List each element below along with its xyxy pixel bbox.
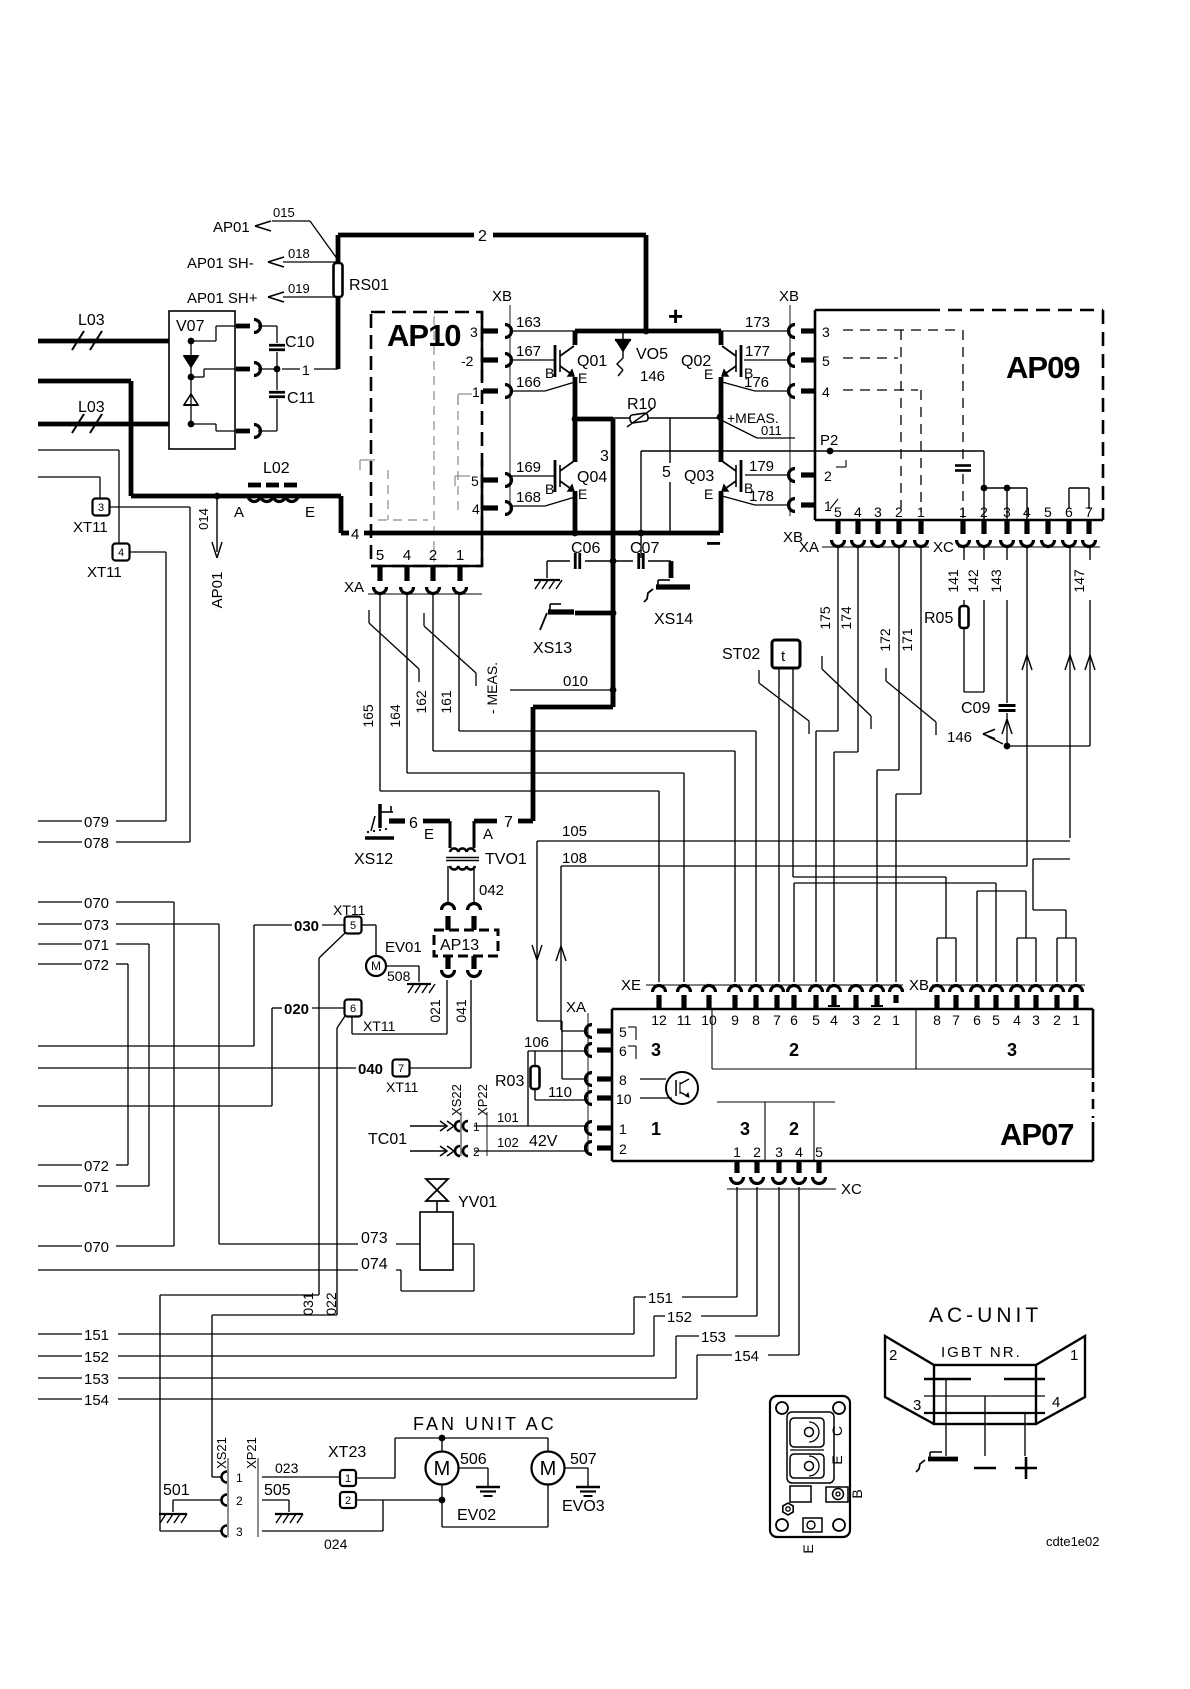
svg-text:174: 174 (838, 606, 854, 630)
svg-text:10: 10 (616, 1091, 632, 1107)
svg-text:R03: R03 (495, 1073, 524, 1090)
svg-text:-2: -2 (461, 353, 474, 369)
svg-text:1: 1 (345, 1473, 351, 1485)
svg-text:070: 070 (84, 1239, 109, 1256)
svg-text:7: 7 (398, 1063, 404, 1075)
svg-text:106: 106 (524, 1034, 549, 1051)
svg-text:020: 020 (284, 1001, 309, 1018)
svg-text:6: 6 (790, 1012, 798, 1028)
svg-text:146: 146 (947, 729, 972, 746)
svg-text:B: B (545, 365, 554, 381)
svg-text:3: 3 (1032, 1012, 1040, 1028)
svg-text:FAN UNIT AC: FAN UNIT AC (413, 1414, 557, 1434)
svg-text:L02: L02 (263, 460, 290, 477)
svg-text:3: 3 (913, 1397, 921, 1414)
svg-text:110: 110 (548, 1084, 572, 1101)
svg-text:161: 161 (438, 690, 454, 714)
svg-text:E: E (829, 1455, 845, 1464)
svg-text:2: 2 (895, 504, 903, 520)
svg-text:EV02: EV02 (457, 1507, 496, 1524)
svg-text:108: 108 (562, 850, 587, 867)
svg-text:XA: XA (799, 539, 819, 556)
svg-text:072: 072 (84, 1158, 109, 1175)
svg-text:4: 4 (1013, 1012, 1021, 1028)
svg-text:M: M (434, 1458, 451, 1480)
svg-text:4: 4 (403, 547, 411, 564)
svg-text:C: C (829, 1426, 845, 1436)
svg-text:010: 010 (563, 673, 588, 690)
svg-text:164: 164 (387, 704, 403, 728)
svg-text:163: 163 (516, 314, 541, 331)
svg-text:162: 162 (413, 690, 429, 714)
svg-text:507: 507 (570, 1451, 597, 1468)
svg-text:3: 3 (470, 324, 478, 340)
svg-text:168: 168 (516, 489, 541, 506)
svg-text:024: 024 (324, 1536, 348, 1552)
svg-text:IGBT NR.: IGBT NR. (941, 1344, 1022, 1361)
svg-text:2: 2 (889, 1347, 897, 1364)
svg-text:V07: V07 (176, 318, 205, 335)
svg-text:4: 4 (472, 501, 480, 517)
svg-text:041: 041 (453, 999, 469, 1023)
svg-text:169: 169 (516, 459, 541, 476)
svg-text:+: + (668, 301, 683, 331)
svg-text:- MEAS.: - MEAS. (484, 662, 500, 714)
svg-text:TVO1: TVO1 (485, 851, 527, 868)
svg-text:3: 3 (874, 504, 882, 520)
svg-text:XB: XB (909, 977, 929, 994)
svg-text:071: 071 (84, 1179, 109, 1196)
svg-text:3: 3 (852, 1012, 860, 1028)
svg-text:XC: XC (841, 1181, 862, 1198)
svg-text:E: E (578, 370, 587, 386)
svg-text:4: 4 (118, 547, 124, 559)
svg-text:3: 3 (98, 502, 104, 514)
svg-text:4: 4 (830, 1012, 838, 1028)
svg-text:7: 7 (504, 814, 513, 831)
svg-text:Q01: Q01 (577, 353, 607, 370)
svg-text:6: 6 (619, 1043, 627, 1059)
svg-text:6: 6 (1065, 504, 1073, 520)
svg-text:143: 143 (988, 569, 1004, 593)
svg-text:1: 1 (472, 384, 480, 400)
svg-text:105: 105 (562, 823, 587, 840)
svg-text:3: 3 (1007, 1040, 1017, 1060)
svg-text:2: 2 (980, 504, 988, 520)
svg-text:XP21: XP21 (244, 1437, 259, 1469)
svg-text:3: 3 (236, 1525, 243, 1539)
svg-text:5: 5 (619, 1024, 627, 1040)
svg-text:Q03: Q03 (684, 468, 714, 485)
svg-text:B: B (849, 1489, 865, 1498)
svg-text:4: 4 (854, 504, 862, 520)
svg-text:040: 040 (358, 1061, 383, 1078)
svg-text:M: M (371, 959, 381, 973)
svg-text:3: 3 (775, 1144, 783, 1160)
svg-text:R05: R05 (924, 610, 953, 627)
svg-text:179: 179 (749, 458, 774, 475)
svg-text:153: 153 (84, 1371, 109, 1388)
svg-text:015: 015 (273, 205, 295, 220)
svg-text:3: 3 (600, 448, 609, 465)
svg-text:B: B (545, 481, 554, 497)
svg-text:7: 7 (952, 1012, 960, 1028)
svg-text:EV01: EV01 (385, 939, 422, 956)
svg-text:A: A (234, 504, 244, 521)
svg-text:2: 2 (478, 228, 487, 245)
svg-text:142: 142 (965, 569, 981, 593)
svg-text:023: 023 (275, 1460, 299, 1476)
svg-text:AP10: AP10 (387, 318, 461, 353)
svg-text:Q04: Q04 (577, 469, 607, 486)
svg-text:9: 9 (731, 1012, 739, 1028)
svg-text:154: 154 (84, 1392, 109, 1409)
svg-text:AP13: AP13 (440, 937, 479, 954)
svg-text:1: 1 (917, 504, 925, 520)
svg-text:501: 501 (163, 1482, 190, 1499)
svg-text:172: 172 (877, 628, 893, 652)
svg-text:506: 506 (460, 1451, 487, 1468)
svg-text:AP07: AP07 (1000, 1117, 1074, 1152)
svg-text:1: 1 (824, 498, 832, 514)
svg-text:XE: XE (621, 977, 641, 994)
svg-text:2: 2 (345, 1495, 351, 1507)
svg-text:8: 8 (933, 1012, 941, 1028)
svg-text:5: 5 (992, 1012, 1000, 1028)
svg-text:R10: R10 (627, 396, 656, 413)
svg-text:4: 4 (1052, 1394, 1060, 1411)
svg-text:5: 5 (471, 473, 479, 489)
svg-text:167: 167 (516, 343, 541, 360)
svg-text:042: 042 (479, 882, 504, 899)
svg-text:3: 3 (822, 324, 830, 340)
svg-text:072: 072 (84, 957, 109, 974)
svg-text:2: 2 (473, 1145, 480, 1159)
svg-text:XS14: XS14 (654, 611, 693, 628)
svg-text:4: 4 (351, 526, 359, 543)
svg-text:171: 171 (899, 628, 915, 652)
svg-text:152: 152 (84, 1349, 109, 1366)
svg-text:2: 2 (789, 1119, 799, 1139)
svg-text:508: 508 (387, 968, 411, 984)
svg-text:EVO3: EVO3 (562, 1498, 605, 1515)
svg-text:2: 2 (824, 468, 832, 484)
svg-text:5: 5 (834, 504, 842, 520)
svg-text:YV01: YV01 (458, 1194, 497, 1211)
svg-text:146: 146 (640, 368, 665, 385)
svg-text:E: E (704, 366, 713, 382)
svg-text:8: 8 (619, 1072, 627, 1088)
svg-text:XT11: XT11 (386, 1079, 419, 1095)
svg-text:−: − (706, 528, 721, 558)
svg-text:5: 5 (662, 464, 671, 481)
svg-text:XS22: XS22 (449, 1084, 464, 1116)
svg-text:151: 151 (648, 1290, 673, 1307)
svg-text:5: 5 (350, 920, 356, 932)
svg-text:151: 151 (84, 1327, 109, 1344)
svg-text:E: E (305, 504, 315, 521)
svg-text:7: 7 (1085, 504, 1093, 520)
svg-text:1: 1 (236, 1471, 243, 1485)
svg-text:12: 12 (651, 1012, 667, 1028)
svg-text:1: 1 (619, 1121, 627, 1137)
svg-text:5: 5 (1044, 504, 1052, 520)
svg-text:2: 2 (1053, 1012, 1061, 1028)
svg-text:073: 073 (361, 1230, 388, 1247)
svg-text:8: 8 (752, 1012, 760, 1028)
svg-text:C07: C07 (630, 540, 659, 557)
svg-text:6: 6 (409, 815, 418, 832)
svg-text:021: 021 (427, 999, 443, 1023)
svg-text:1: 1 (456, 547, 464, 564)
svg-text:1: 1 (1072, 1012, 1080, 1028)
svg-text:XT11: XT11 (87, 564, 122, 581)
svg-text:153: 153 (701, 1329, 726, 1346)
svg-text:3: 3 (651, 1040, 661, 1060)
svg-text:XA: XA (344, 579, 364, 596)
svg-text:1: 1 (1070, 1347, 1078, 1364)
svg-text:2: 2 (753, 1144, 761, 1160)
svg-text:XS13: XS13 (533, 640, 572, 657)
svg-text:42V: 42V (529, 1133, 558, 1150)
svg-text:030: 030 (294, 918, 319, 935)
svg-text:6: 6 (350, 1003, 356, 1015)
svg-text:cdte1e02: cdte1e02 (1046, 1534, 1100, 1549)
svg-text:166: 166 (516, 374, 541, 391)
svg-text:3: 3 (740, 1119, 750, 1139)
svg-text:C10: C10 (285, 334, 314, 351)
svg-text:XC: XC (933, 539, 954, 556)
svg-text:AP09: AP09 (1006, 350, 1080, 385)
svg-text:2: 2 (236, 1494, 243, 1508)
svg-text:E: E (424, 826, 434, 843)
svg-text:165: 165 (360, 704, 376, 728)
svg-text:P2: P2 (820, 432, 838, 449)
svg-text:L03: L03 (78, 399, 105, 416)
svg-text:014: 014 (196, 508, 211, 530)
svg-text:C06: C06 (571, 540, 600, 557)
svg-text:XT23: XT23 (328, 1444, 366, 1461)
svg-text:RS01: RS01 (349, 277, 389, 294)
svg-text:071: 071 (84, 937, 109, 954)
svg-text:AC-UNIT: AC-UNIT (929, 1304, 1042, 1327)
svg-text:1: 1 (651, 1119, 661, 1139)
svg-text:E: E (578, 486, 587, 502)
svg-text:2: 2 (429, 547, 437, 564)
svg-text:AP01 SH+: AP01 SH+ (187, 290, 258, 307)
svg-text:4: 4 (795, 1144, 803, 1160)
svg-text:3: 3 (1003, 504, 1011, 520)
svg-text:AP01: AP01 (213, 219, 250, 236)
svg-text:505: 505 (264, 1482, 291, 1499)
svg-text:AP01: AP01 (209, 572, 226, 609)
svg-text:2: 2 (789, 1040, 799, 1060)
svg-text:7: 7 (773, 1012, 781, 1028)
svg-text:101: 101 (497, 1110, 519, 1125)
svg-text:5: 5 (812, 1012, 820, 1028)
svg-text:178: 178 (749, 488, 774, 505)
svg-text:1: 1 (302, 362, 310, 378)
svg-text:177: 177 (745, 343, 770, 360)
svg-text:E: E (704, 486, 713, 502)
svg-text:6: 6 (973, 1012, 981, 1028)
svg-text:073: 073 (84, 917, 109, 934)
svg-text:A: A (483, 826, 493, 843)
svg-text:ST02: ST02 (722, 646, 760, 663)
svg-text:154: 154 (734, 1348, 759, 1365)
svg-text:XT11: XT11 (73, 519, 108, 536)
svg-text:074: 074 (361, 1256, 388, 1273)
svg-text:2: 2 (873, 1012, 881, 1028)
svg-text:102: 102 (497, 1135, 519, 1150)
svg-text:XS12: XS12 (354, 851, 393, 868)
svg-text:XP22: XP22 (475, 1084, 490, 1116)
svg-text:4: 4 (822, 384, 830, 400)
svg-text:141: 141 (945, 569, 961, 593)
svg-text:147: 147 (1071, 569, 1087, 593)
svg-text:M: M (540, 1458, 557, 1480)
svg-text:1: 1 (473, 1120, 480, 1134)
svg-text:022: 022 (323, 1292, 339, 1316)
svg-text:L03: L03 (78, 312, 105, 329)
svg-text:079: 079 (84, 814, 109, 831)
svg-text:173: 173 (745, 314, 770, 331)
svg-text:011: 011 (761, 423, 782, 438)
svg-text:XB: XB (779, 288, 799, 305)
svg-text:XA: XA (566, 999, 586, 1016)
svg-text:018: 018 (288, 246, 310, 261)
svg-text:1: 1 (892, 1012, 900, 1028)
svg-text:5: 5 (822, 353, 830, 369)
svg-text:152: 152 (667, 1309, 692, 1326)
svg-text:E: E (800, 1544, 816, 1553)
svg-text:XS21: XS21 (214, 1437, 229, 1469)
svg-text:10: 10 (701, 1012, 717, 1028)
svg-text:5: 5 (376, 547, 384, 564)
svg-text:TC01: TC01 (368, 1131, 407, 1148)
svg-text:XB: XB (492, 288, 512, 305)
svg-text:019: 019 (288, 281, 310, 296)
svg-text:5: 5 (815, 1144, 823, 1160)
svg-text:C09: C09 (961, 700, 990, 717)
svg-text:VO5: VO5 (636, 346, 668, 363)
svg-text:078: 078 (84, 835, 109, 852)
svg-text:070: 070 (84, 895, 109, 912)
svg-text:175: 175 (817, 606, 833, 630)
svg-text:C11: C11 (287, 390, 315, 407)
svg-text:11: 11 (677, 1012, 692, 1028)
svg-text:2: 2 (619, 1141, 627, 1157)
svg-text:4: 4 (1023, 504, 1031, 520)
svg-text:1: 1 (733, 1144, 741, 1160)
svg-text:AP01 SH-: AP01 SH- (187, 255, 254, 272)
svg-text:1: 1 (959, 504, 967, 520)
svg-text:XT11: XT11 (363, 1018, 396, 1034)
